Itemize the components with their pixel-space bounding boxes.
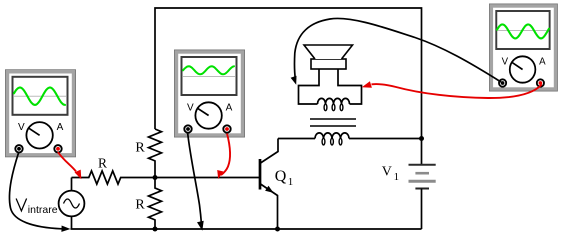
svg-text:1: 1 — [394, 171, 400, 183]
svg-text:1: 1 — [288, 176, 294, 188]
svg-text:R: R — [135, 140, 145, 155]
svg-text:Q: Q — [275, 168, 287, 185]
svg-text:R: R — [98, 155, 107, 170]
svg-text:V: V — [382, 165, 392, 180]
svg-text:R: R — [135, 198, 145, 213]
svg-text:intrare: intrare — [28, 204, 58, 216]
